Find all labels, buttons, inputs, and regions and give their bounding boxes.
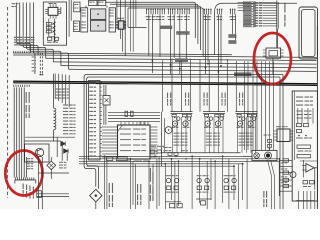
wire bus-A line 3	[23, 3, 316, 61]
board name (rotated)	[284, 3, 285, 27]
part labels R	[206, 133, 220, 146]
wires bus to right section	[245, 61, 274, 150]
IC4 driver body	[277, 129, 290, 142]
filter cluster C	[224, 175, 237, 192]
inline label small x176	[176, 31, 189, 34]
connector pins at x168	[167, 9, 175, 20]
relay block pin list left	[81, 8, 88, 32]
IC4 label	[276, 126, 288, 127]
connector CN851 top labels	[27, 158, 33, 169]
mech unit inner labels top	[296, 97, 313, 106]
transistor Q901	[36, 148, 44, 156]
IC3 part number	[119, 161, 149, 162]
wire CN605 to bus	[272, 58, 274, 74]
bottom bus wires	[79, 156, 279, 166]
resistor array R101-R103	[46, 22, 54, 33]
wire stubs into label rows	[238, 3, 244, 11]
transistor Q851	[290, 172, 296, 178]
op-amp wires	[300, 160, 317, 190]
wires into IC3 top	[108, 112, 160, 125]
relay RY901 coil A	[91, 9, 106, 20]
loading motor M901	[265, 152, 272, 159]
wire codes along bundle B	[26, 92, 30, 118]
audio output stage L rail	[171, 112, 193, 114]
resistors R	[205, 114, 224, 117]
connector CN851 wire-code labels	[23, 184, 34, 199]
relay RY901 coil B	[91, 20, 106, 31]
wire stubs below bus x55-72	[55, 74, 69, 108]
wire bus-A line 4	[27, 3, 317, 65]
bottom-left rail pair	[37, 194, 69, 197]
IC3 servo processor body	[118, 125, 151, 159]
label box top x74	[74, 2, 80, 12]
wires below D852	[95, 202, 97, 209]
IC1 part-number label	[60, 7, 61, 14]
connector CN101 hatch bar	[14, 51, 29, 53]
connector CN851 hatch bar	[15, 177, 36, 183]
relay block top terminal boxes	[89, 0, 106, 5]
part smudge L	[172, 127, 190, 128]
IC3 internal label	[120, 129, 146, 152]
junction dots on mid bus	[152, 60, 222, 73]
wire to choke coil	[53, 74, 55, 108]
CN605 pins	[263, 50, 284, 56]
MD mechanism unit (double box)	[299, 7, 318, 59]
wires C down	[238, 117, 256, 153]
audio output stage R rail	[203, 112, 225, 114]
capacitors C	[239, 117, 256, 121]
vertical connector line (double)	[277, 1, 278, 48]
CN605 label	[267, 60, 279, 61]
photo interrupter box	[103, 96, 110, 106]
net labels below bus x55-75	[56, 89, 70, 99]
wire bus-A line 6	[33, 3, 316, 72]
feeder stub labels	[32, 57, 36, 72]
unit outline wire B	[87, 77, 280, 189]
wire bus-A line 1	[13, 3, 232, 55]
mech unit parts lower	[297, 145, 312, 158]
IC1 chip body	[48, 7, 58, 15]
wires L down	[173, 117, 191, 153]
diode D902	[64, 149, 68, 153]
wires dropping from pin clusters	[149, 14, 236, 74]
wire bus-A line 2	[13, 3, 316, 58]
labels right of D851	[59, 162, 66, 169]
mech unit extra wires	[297, 111, 312, 119]
mech unit parts mid	[296, 124, 312, 139]
transistor Q301	[165, 127, 172, 134]
part smudge C	[237, 127, 255, 128]
cluster above bottom bus x150-168	[150, 146, 188, 160]
connector CN851 wire stub	[26, 157, 28, 178]
IC4 pins	[274, 131, 293, 140]
choke coil L901	[54, 108, 56, 130]
ladder rails	[278, 158, 280, 196]
unit outline right edge	[280, 75, 283, 210]
relay block pin list right	[109, 8, 115, 32]
highlight circle (bottom-left)	[5, 151, 42, 196]
wire IC1 internals	[49, 19, 55, 42]
connector pins at x230	[229, 9, 235, 20]
wire bus-A line 5	[30, 3, 317, 68]
inline labels x229	[228, 34, 236, 43]
wires bus to analog rails	[163, 58, 237, 111]
analog lower rail	[162, 152, 241, 154]
op-amp IC851	[306, 164, 314, 172]
page edge (scan) dashed line	[7, 7, 9, 198]
part labels L	[174, 133, 188, 146]
resistors R2xx	[125, 111, 133, 116]
connector pins at x177	[177, 9, 183, 20]
IC2 label	[117, 18, 124, 19]
net-name labels on bus-A wires	[14, 37, 35, 46]
IC3 right pins	[150, 127, 158, 157]
connector pins at x157	[157, 9, 165, 20]
top bus wires	[105, 2, 203, 56]
wire bundle B to bottom connector	[14, 87, 24, 177]
inline connector label CN202	[234, 72, 252, 75]
bridge rectifier D851	[47, 161, 56, 170]
inline label box2 on bottom bus	[106, 157, 113, 160]
wires relay to top edge	[86, 0, 107, 8]
wires x103-106	[104, 85, 106, 125]
inline label small x160	[160, 26, 172, 29]
IC3 top pins	[121, 122, 145, 125]
slanted sense wires	[268, 160, 275, 209]
top-left corner notes	[12, 3, 19, 7]
connector pins at x204	[203, 9, 211, 20]
connector pins at x146	[146, 9, 158, 20]
connector pins at x184	[184, 9, 190, 20]
wires above relay block	[69, 0, 71, 37]
rotated wire-code labels bottom-centre	[109, 168, 267, 207]
ladder labels	[281, 162, 287, 183]
bottom rail stub B	[196, 199, 212, 205]
mechanism unit box	[292, 91, 317, 201]
coil feed text column	[63, 105, 76, 135]
mech unit wires	[295, 91, 314, 160]
filter cluster B	[197, 175, 210, 192]
ladder rungs with parts	[279, 159, 292, 191]
main chassis bus (thick)	[13, 81, 317, 85]
inline connector label CN201	[175, 58, 188, 61]
IC2 pins	[116, 21, 126, 28]
unit box corner	[215, 3, 297, 55]
wires diodes	[62, 141, 67, 161]
ribbon connector CN605 body	[266, 48, 281, 58]
transistors C	[237, 121, 253, 126]
resistors C	[237, 114, 256, 117]
junction dots under IC1	[54, 22, 56, 43]
part labels C	[239, 133, 253, 146]
wire motor feed	[243, 155, 252, 157]
op-amp feedback parts	[303, 181, 314, 188]
wires R down	[205, 117, 223, 153]
capacitors L	[174, 117, 191, 121]
capacitors R	[207, 117, 224, 121]
motor cap	[254, 153, 260, 159]
IC2 body	[118, 21, 124, 29]
power rail wires	[25, 137, 75, 157]
highlight circle (top-right)	[254, 33, 291, 84]
wires around IC2	[117, 0, 125, 56]
unit outline wire A	[84, 75, 283, 187]
inline label box on bottom bus	[116, 157, 127, 161]
IC3 left pins	[102, 127, 118, 157]
bridge rectifier D852	[90, 189, 102, 202]
wire jog x128	[128, 8, 147, 27]
wires around D851	[38, 157, 69, 209]
IC1 outer shield box	[43, 2, 66, 45]
loading motor box	[252, 150, 277, 160]
connector CN102 hatch bar	[14, 85, 29, 87]
transistors R	[205, 121, 221, 126]
transistors L	[172, 121, 188, 126]
diode D901	[61, 142, 65, 146]
analog section left wires	[162, 112, 165, 166]
part smudge R	[204, 127, 222, 128]
filter cluster A	[166, 175, 179, 192]
wire coil to rail	[53, 130, 55, 141]
antenna feeder (dashed pair)	[40, 53, 44, 76]
bottom rail stub A	[165, 202, 182, 208]
fuse box F851	[37, 191, 42, 198]
junction dots on bottom bus	[104, 155, 244, 167]
bottom vertical wires	[105, 156, 248, 209]
capacitors C101 C102	[47, 37, 59, 43]
net labels above analog section	[167, 93, 243, 106]
sheet right border	[316, 26, 318, 209]
IC1 pins	[45, 4, 61, 18]
parts cluster left of IC4	[264, 135, 272, 150]
wire feeder stub	[34, 54, 36, 75]
resistors L	[172, 114, 191, 117]
wires right of relay	[131, 0, 136, 52]
bottom-right vertical wires	[296, 191, 315, 209]
top-right signal label rows	[243, 2, 277, 27]
regulator box Q901	[25, 144, 49, 162]
pin header column	[89, 81, 103, 161]
IC1 top label	[49, 3, 57, 4]
label box mid x74	[74, 21, 80, 32]
audio output stage C rail	[236, 112, 258, 114]
connector pins at x217	[216, 9, 222, 20]
